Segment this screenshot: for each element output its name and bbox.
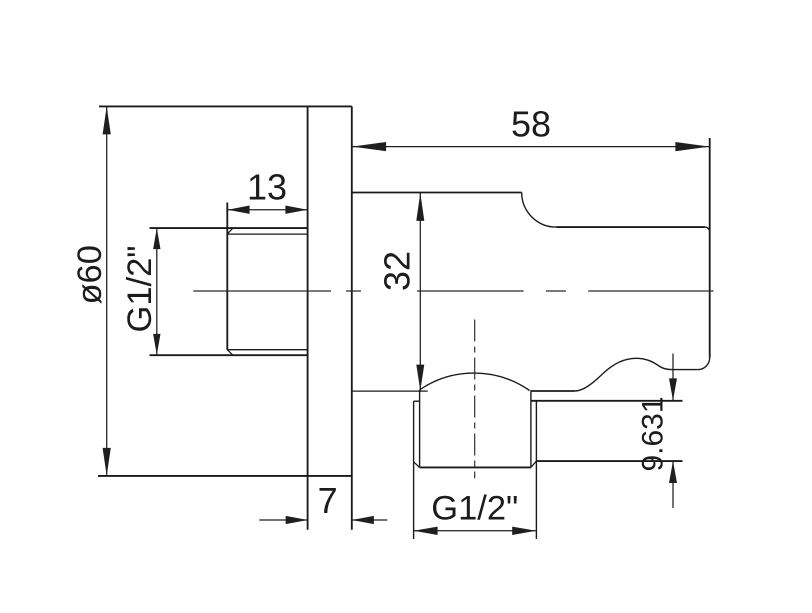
wall plate top edge: [99, 105, 352, 107]
dimension line 9.631 upper segment: [672, 354, 674, 401]
dimension line 9.631 lower segment: [672, 461, 674, 508]
svg-text:G1/2": G1/2": [431, 490, 518, 528]
arrow 7 right: [352, 516, 374, 524]
body top edge: [352, 192, 522, 194]
wall plate right edge: [351, 106, 353, 529]
body step fillet: [522, 193, 557, 228]
body upper edge right section: [556, 226, 705, 228]
svg-text:7: 7: [318, 480, 338, 521]
outlet stub bottom left chamfer: [414, 462, 420, 468]
svg-text:G1/2": G1/2": [121, 245, 159, 332]
wall plate left edge: [307, 106, 309, 529]
body bottom right corner: [698, 358, 710, 370]
outlet stub top step left: [414, 400, 420, 402]
arrow 32 top: [416, 193, 424, 221]
svg-text:ø60: ø60: [71, 245, 109, 304]
pipe top edge: [531, 400, 683, 402]
outlet stub bottom right chamfer: [531, 461, 536, 467]
inlet boss bottom chamfer: [227, 350, 233, 356]
arrow 58 right: [675, 142, 709, 151]
arrow dia60 top: [103, 106, 111, 134]
svg-text:13: 13: [247, 166, 287, 207]
inlet boss end face: [226, 203, 228, 350]
svg-text:32: 32: [376, 251, 417, 291]
arrow G12L bottom: [153, 334, 160, 355]
arrow 9631 top: [669, 378, 677, 400]
outlet dome curve: [420, 373, 529, 390]
arrow G12L top: [153, 228, 160, 249]
horizontal centerline: [193, 290, 713, 292]
arrow G12B left: [414, 527, 438, 535]
inlet boss thread inner bottom: [227, 349, 307, 351]
inlet boss thread inner top: [227, 233, 307, 235]
arrow 7 left: [286, 516, 308, 524]
outlet stub thread inner left: [419, 390, 421, 468]
dimension line 32: [419, 193, 421, 391]
vertical centerline of outlet: [474, 320, 476, 479]
arrow 13 left: [228, 206, 250, 214]
dimension line 58: [352, 146, 710, 148]
outlet stub outer right: [535, 401, 537, 539]
arrow 58 left: [352, 142, 386, 151]
body underside left edge: [352, 390, 428, 392]
pipe bottom edge: [536, 460, 682, 462]
dimension line 13: [227, 209, 307, 211]
arrow dia60 bottom: [103, 448, 111, 476]
body bottom s-curve and bottom edge: [575, 358, 698, 391]
outlet stub bottom face: [420, 466, 532, 468]
svg-text:58: 58: [511, 103, 551, 144]
dimension line G1/2 left: [156, 228, 158, 355]
dimension line diameter 60: [106, 106, 108, 476]
inlet boss outer top edge: [150, 227, 308, 229]
body bottom ledge: [531, 390, 575, 392]
arrow 13 right: [285, 206, 307, 214]
inlet boss outer bottom edge: [150, 354, 308, 356]
outlet stub outer left: [413, 401, 415, 539]
body right end edge: [709, 138, 711, 358]
arrow 9631 bottom: [669, 461, 677, 483]
arrow G12B right: [512, 527, 536, 535]
arrow 32 bottom: [416, 365, 424, 391]
body top right corner: [705, 227, 710, 232]
dimension line 7 left segment: [259, 519, 307, 521]
svg-text:9.631: 9.631: [636, 396, 669, 471]
outlet stub thread inner right: [530, 391, 532, 468]
wall plate bottom edge: [98, 475, 352, 477]
inlet boss top chamfer: [227, 228, 233, 234]
dimension line 7 right segment: [352, 519, 388, 521]
dimension line G1/2 bottom: [414, 530, 537, 532]
